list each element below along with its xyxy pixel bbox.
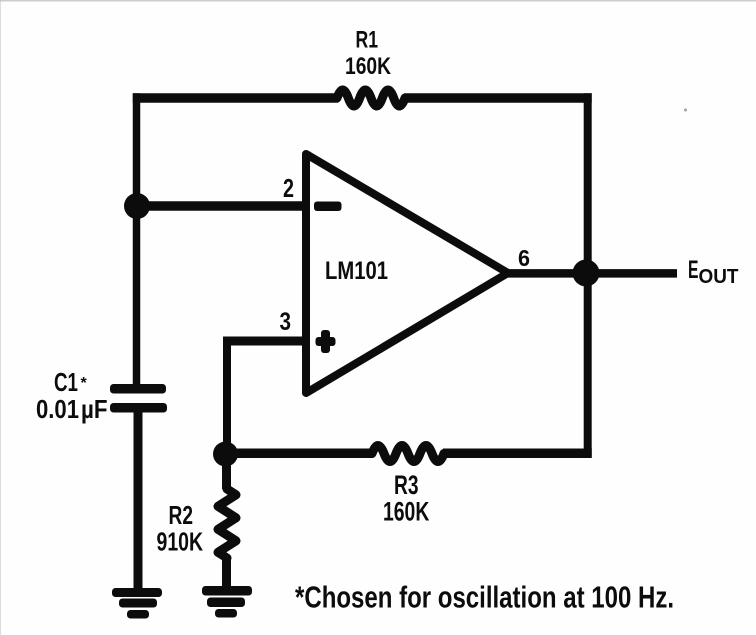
op-amp U1 triangle xyxy=(306,154,508,393)
svg-text:3: 3 xyxy=(280,308,292,336)
svg-text:LM101: LM101 xyxy=(325,257,388,285)
wire top (left segment) xyxy=(133,93,338,103)
wire pin 3 lead xyxy=(223,337,307,346)
capacitor C1 top plate xyxy=(110,384,166,394)
wire top (right segment) xyxy=(404,93,592,103)
svg-text:R2: R2 xyxy=(169,500,194,530)
wire right rail xyxy=(584,93,592,457)
wire pin 3 drop to node xyxy=(223,337,231,455)
svg-text:*: * xyxy=(81,375,88,392)
wire bottom right: R3 to right rail xyxy=(443,449,592,459)
svg-text:910K: 910K xyxy=(157,527,204,557)
svg-text:C1: C1 xyxy=(54,367,78,397)
wire pin 2 lead xyxy=(133,201,307,211)
svg-text:R3: R3 xyxy=(394,470,419,500)
svg-text:2: 2 xyxy=(283,173,294,203)
node A junction dot (inverting input) xyxy=(124,193,150,219)
svg-text:OUT: OUT xyxy=(699,266,739,288)
wire bottom left: node to R3 xyxy=(224,449,373,459)
svg-text:R1: R1 xyxy=(356,27,379,54)
op-amp inverting minus symbol xyxy=(314,202,342,212)
svg-text:E: E xyxy=(688,256,699,284)
wire C1 bottom to ground xyxy=(134,408,143,590)
svg-text:µF: µF xyxy=(81,394,108,424)
wire output lead xyxy=(507,269,677,278)
svg-text:*Chosen for oscillation at 100: *Chosen for oscillation at 100 Hz. xyxy=(295,580,674,615)
resistor R3 xyxy=(372,446,444,462)
svg-text:160K: 160K xyxy=(345,53,392,80)
capacitor C1 bottom plate xyxy=(110,403,167,413)
resistor R1 xyxy=(337,90,405,106)
svg-text:160K: 160K xyxy=(383,497,430,527)
node C junction dot (output) xyxy=(573,260,600,287)
wire left rail (node to C1 top) xyxy=(133,93,141,388)
svg-text:6: 6 xyxy=(518,245,530,271)
op-amp non-inverting plus symbol xyxy=(316,330,336,353)
ground under C1 xyxy=(112,588,162,619)
svg-text:0.01: 0.01 xyxy=(36,394,79,424)
resistor R2 xyxy=(218,489,236,558)
wire R2 bottom to ground xyxy=(222,556,231,588)
ground under R2 xyxy=(202,586,252,618)
node B junction dot (non-inverting / feedback) xyxy=(213,442,238,467)
wire node to R2 top xyxy=(222,453,231,489)
